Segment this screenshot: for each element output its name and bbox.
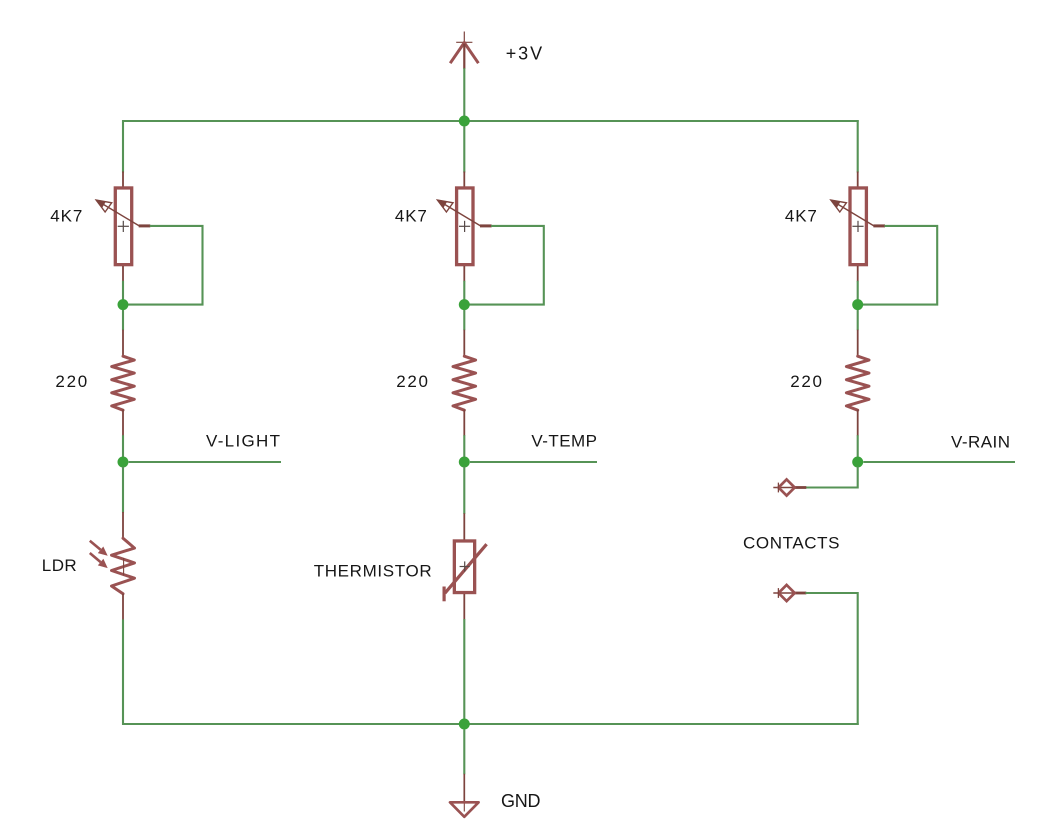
wire: +3V stub down to top rail <box>463 68 465 121</box>
svg-text:CONTACTS: CONTACTS <box>743 534 840 553</box>
svg-text:220: 220 <box>790 372 822 391</box>
junction: bottom rail / GND <box>459 719 470 730</box>
trimmer potentiometer 4K7 (right) <box>831 172 885 282</box>
THERMISTOR <box>444 513 487 619</box>
wire: wiper loop to lower junction (right) <box>858 226 938 305</box>
wire: resistor to sense node (middle) <box>463 435 465 462</box>
wire: V-TEMP stub <box>470 461 597 463</box>
wire: LDR to bottom rail <box>122 619 124 725</box>
wire: resistor to sense node (left) <box>122 435 124 462</box>
svg-text:+3V: +3V <box>506 44 542 64</box>
wire: left branch from top rail down to trimmer <box>122 120 124 172</box>
junction: V-LIGHT node <box>118 457 129 468</box>
svg-text:4K7: 4K7 <box>395 207 427 226</box>
wire: wiper loop to lower junction (middle) <box>464 226 544 305</box>
resistor 220 (right) <box>846 330 869 436</box>
wire: V-RAIN stub <box>863 461 1015 463</box>
wire: lower contact to bottom rail <box>806 593 858 725</box>
wire: V-LIGHT node down to LDR <box>122 467 124 513</box>
trimmer potentiometer 4K7 (left) <box>96 172 150 282</box>
junction: trimmer output node (right) <box>852 299 863 310</box>
wire: middle branch from top rail down to trimmer <box>463 126 465 172</box>
wire: wiper loop to lower junction (left) <box>123 226 203 305</box>
junction: V-RAIN node <box>852 457 863 468</box>
svg-text:THERMISTOR: THERMISTOR <box>314 562 432 581</box>
wire: trimmer bottom to junction (right) <box>857 281 859 330</box>
svg-text:4K7: 4K7 <box>785 207 817 226</box>
wire: bottom rail down to GND <box>463 730 465 775</box>
trimmer potentiometer 4K7 (middle) <box>438 172 492 282</box>
contact pin (upper) <box>773 479 806 495</box>
wire: trimmer bottom to junction (middle) <box>463 281 465 330</box>
wire: V-TEMP node down to thermistor <box>463 467 465 514</box>
LDR photoresistor <box>90 512 135 620</box>
GND ground symbol <box>450 774 479 817</box>
wire: V-LIGHT stub <box>129 461 281 463</box>
svg-text:V-RAIN: V-RAIN <box>951 433 1010 452</box>
contact pin (lower) <box>773 585 806 601</box>
+3V power symbol <box>450 32 478 69</box>
wire: top horizontal rail <box>122 120 859 122</box>
svg-text:LDR: LDR <box>42 556 77 575</box>
junction: V-TEMP node <box>459 457 470 468</box>
resistor 220 (left) <box>112 330 135 436</box>
junction: trimmer output node (left) <box>118 299 129 310</box>
svg-text:220: 220 <box>55 372 87 391</box>
wire: resistor to sense node (right) <box>857 435 859 462</box>
resistor 220 (middle) <box>453 330 476 436</box>
wire: bottom horizontal rail <box>122 723 859 725</box>
svg-text:4K7: 4K7 <box>50 207 82 226</box>
svg-text:V-TEMP: V-TEMP <box>531 432 597 451</box>
junction: trimmer output node (middle) <box>459 299 470 310</box>
wire: thermistor to bottom rail <box>463 619 465 725</box>
junction: top rail / middle branch <box>459 116 470 127</box>
wire: right branch from top rail down to trimmer <box>857 120 859 172</box>
svg-text:GND: GND <box>501 791 541 811</box>
svg-text:V-LIGHT: V-LIGHT <box>206 432 280 451</box>
svg-text:220: 220 <box>396 372 428 391</box>
wire: trimmer bottom to junction (left) <box>122 281 124 330</box>
wire: V-RAIN node down and left to upper contact <box>806 467 858 488</box>
